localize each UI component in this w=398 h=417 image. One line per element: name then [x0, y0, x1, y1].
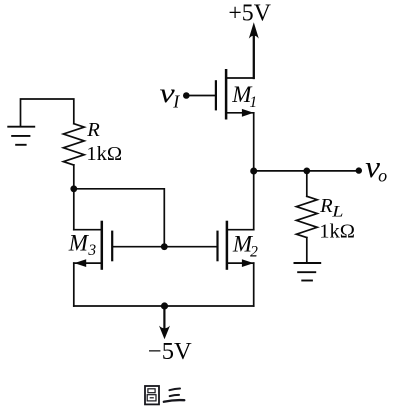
caption figure three char TU [145, 386, 159, 404]
ground RL bar2 [297, 271, 316, 273]
node dot output rail junction [250, 168, 257, 175]
wire right rail M1 source to M2 drain [253, 113, 255, 230]
svg-text:I: I [172, 92, 180, 112]
wire M2 source lead [228, 262, 254, 264]
wire M3 drain lead [74, 229, 101, 231]
resistor RL zigzag [296, 196, 317, 237]
node dot vo terminal [356, 167, 362, 173]
wire M1 gate lead from vI [186, 95, 214, 97]
wire RL top lead [306, 171, 308, 196]
arrowhead +5V [249, 22, 259, 38]
node dot R junction [70, 185, 77, 192]
wire M3 source down [73, 263, 75, 306]
svg-text:−5V: −5V [148, 338, 192, 365]
node dot RL junction [303, 168, 310, 175]
transistor M3 gate bar [111, 231, 113, 262]
caption figure three char SAN [164, 389, 185, 402]
wire ground-left top [21, 99, 74, 126]
ground RL bar3 [301, 280, 313, 282]
svg-text:1kΩ: 1kΩ [319, 220, 355, 242]
wire R node down to M3 drain [73, 189, 75, 230]
transistor M1 gate bar [215, 80, 217, 110]
wire M3 source lead [74, 262, 101, 264]
transistor M1 channel bar [225, 69, 228, 120]
ground left bar3 [15, 144, 26, 146]
svg-text:R: R [319, 195, 333, 217]
transistor M2 gate bar [216, 231, 218, 262]
wire output node horizontal [254, 170, 359, 172]
wire gate bus M3 to M2 [113, 246, 216, 248]
wire M2 drain lead [228, 229, 254, 231]
wire +5V supply down to M1 drain [253, 33, 255, 78]
node dot bottom rail junction [161, 302, 168, 309]
transistor M2 channel bar [226, 221, 229, 270]
ground RL bar1 [294, 262, 322, 264]
ground left bar1 [7, 126, 35, 128]
resistor R zigzag [63, 124, 84, 165]
svg-text:L: L [331, 202, 343, 220]
wire RL bottom lead [306, 238, 308, 262]
wire R bottom lead [73, 165, 75, 189]
wire M1 source lead [227, 112, 254, 114]
arrowhead M1 source (points right) [242, 109, 254, 117]
transistor M3 channel bar [101, 221, 104, 270]
wire node to gates horizontal [74, 189, 165, 247]
arrowhead M3 source (points left) [74, 259, 86, 267]
arrowhead M2 source (points right) [242, 259, 254, 267]
node dot gate bus junction [161, 243, 168, 250]
node dot vI terminal [183, 92, 190, 99]
svg-text:o: o [378, 166, 387, 186]
svg-text:1kΩ: 1kΩ [86, 143, 122, 165]
arrowhead -5V [159, 326, 170, 340]
wire -5V arrow shaft [163, 306, 165, 333]
wire bottom rail [74, 305, 254, 307]
wire M1 drain lead [227, 77, 253, 79]
ground left bar2 [11, 135, 30, 137]
svg-text:R: R [86, 119, 100, 141]
wire M2 source down [253, 263, 255, 306]
svg-text:+5V: +5V [228, 1, 271, 27]
